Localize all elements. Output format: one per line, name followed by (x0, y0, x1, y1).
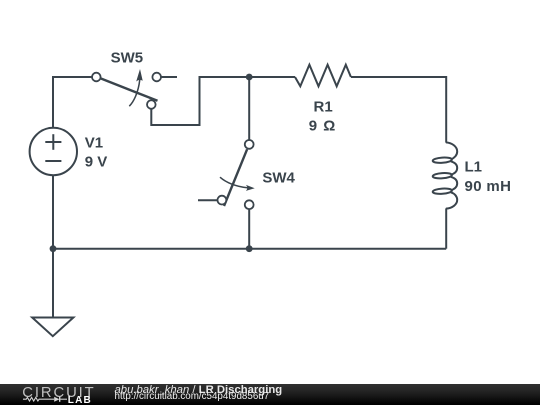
voltage source V1 (30, 128, 77, 175)
ground (32, 318, 73, 337)
wire SW4 left throw stub (198, 199, 218, 201)
inductor L1 (433, 142, 458, 208)
junction node top (246, 74, 253, 81)
wire R1 right to L1 top (351, 77, 446, 143)
wire V1 bottom (52, 175, 54, 249)
wire V1 top to SW5 common (53, 77, 94, 128)
svg-text:L1: L1 (465, 158, 483, 175)
footer title text (115, 386, 283, 396)
footer logo bar (0, 384, 540, 405)
CircuitLab logo (0, 384, 110, 405)
svg-text:LAB: LAB (68, 395, 92, 405)
svg-text:V1: V1 (85, 135, 103, 152)
wire L1 bottom to bottom rail (445, 208, 447, 248)
junction node bottom left (50, 245, 57, 252)
wire bottom rail (53, 248, 446, 250)
svg-text:R1: R1 (314, 98, 333, 115)
switch SW5 (92, 69, 161, 109)
wire SW5 open throw stub (160, 76, 177, 78)
svg-text:90 mH: 90 mH (465, 178, 512, 195)
label L1 90mH (465, 158, 512, 195)
svg-text:SW4: SW4 (262, 170, 295, 187)
resistor R1 (295, 65, 351, 87)
label R1 9ohm (309, 98, 337, 134)
wire SW5 lower throw to top rail to R1 (151, 77, 295, 125)
wire node to SW4 common (248, 77, 250, 141)
svg-text:9 Ω: 9 Ω (309, 118, 337, 135)
wire SW4 bottom throw to bottom rail (248, 208, 250, 249)
wire ground lead (52, 249, 54, 318)
footer url text (115, 392, 270, 402)
svg-text:9 V: 9 V (85, 154, 108, 171)
svg-text:SW5: SW5 (111, 49, 144, 66)
switch SW4 (218, 140, 255, 209)
label V1 9V (85, 135, 108, 171)
junction node bottom mid (246, 245, 253, 252)
